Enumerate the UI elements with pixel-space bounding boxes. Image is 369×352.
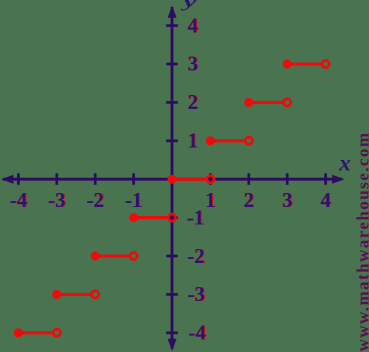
tick x=-4 <box>17 173 20 185</box>
closed endpoint (-2,-2) <box>91 252 100 261</box>
y-axis top arrowhead <box>168 6 177 18</box>
svg-text:-1: -1 <box>187 206 205 230</box>
closed endpoint (1,1) <box>206 136 215 145</box>
svg-text:-1: -1 <box>125 188 143 212</box>
tick y=-2 <box>166 255 178 258</box>
tick y=-3 <box>166 293 178 296</box>
step segment y=-2 wire <box>95 254 130 257</box>
svg-text:3: 3 <box>282 188 293 212</box>
tick y=-1 <box>166 216 178 219</box>
tick y=-4 <box>166 331 178 334</box>
tick x=4 <box>324 173 327 185</box>
tick y=4 <box>166 24 178 27</box>
closed endpoint (-3,-3) <box>52 290 61 299</box>
open endpoint (-2,-3) <box>92 291 99 298</box>
closed endpoint (0,0) <box>168 175 177 184</box>
x-axis <box>3 178 342 181</box>
svg-text:-2: -2 <box>86 188 104 212</box>
svg-text:-2: -2 <box>187 244 205 268</box>
y-axis bottom arrowhead <box>168 339 177 351</box>
step segment y=0 wire <box>172 178 207 181</box>
open endpoint (0,-1) <box>168 214 175 221</box>
tick x=-3 <box>55 173 58 185</box>
svg-text:-3: -3 <box>187 282 205 306</box>
x-axis left arrowhead <box>1 175 13 184</box>
open endpoint (3,2) <box>284 99 291 106</box>
closed endpoint (-1,-1) <box>129 213 138 222</box>
svg-text:-4: -4 <box>10 188 28 212</box>
svg-text:-4: -4 <box>188 321 206 345</box>
svg-text:4: 4 <box>187 13 198 37</box>
closed endpoint (-4,-4) <box>14 328 23 337</box>
y-axis <box>171 7 174 349</box>
tick x=3 <box>286 173 289 185</box>
svg-text:x: x <box>338 151 351 176</box>
svg-text:3: 3 <box>187 52 198 76</box>
tick y=3 <box>166 63 178 66</box>
closed endpoint (3,3) <box>283 60 292 69</box>
step segment y=-1 wire <box>134 216 169 219</box>
step segment y=1 wire <box>210 139 245 142</box>
tick y=2 <box>166 101 178 104</box>
svg-text:2: 2 <box>187 90 198 114</box>
step segment y=2 wire <box>249 101 284 104</box>
svg-text:4: 4 <box>320 188 331 212</box>
svg-text:www.mathwarehouse.com: www.mathwarehouse.com <box>354 132 369 352</box>
svg-text:1: 1 <box>187 129 198 153</box>
open endpoint (1,0) <box>207 176 214 183</box>
open endpoint (2,1) <box>245 137 252 144</box>
step segment y=-3 wire <box>57 293 92 296</box>
x-axis right arrowhead <box>332 175 344 184</box>
open endpoint (4,3) <box>322 60 329 67</box>
tick x=2 <box>247 173 250 185</box>
open endpoint (-1,-2) <box>130 252 137 259</box>
tick x=1 <box>209 173 212 185</box>
tick y=1 <box>166 139 178 142</box>
step segment y=3 wire <box>287 62 322 65</box>
step segment y=-4 wire <box>18 331 53 334</box>
tick x=-2 <box>94 173 97 185</box>
closed endpoint (2,2) <box>244 98 253 107</box>
svg-text:-3: -3 <box>48 188 66 212</box>
open endpoint (-3,-4) <box>53 329 60 336</box>
svg-text:1: 1 <box>205 188 216 212</box>
tick x=-1 <box>132 173 135 185</box>
svg-text:2: 2 <box>244 188 255 212</box>
